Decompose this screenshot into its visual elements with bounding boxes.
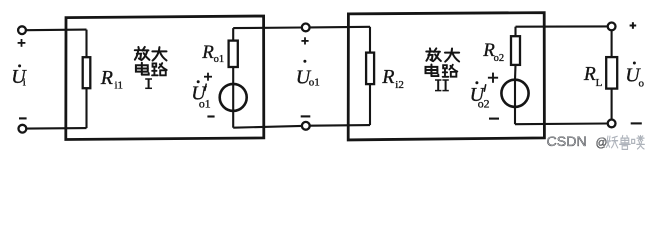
label U'o2 <box>470 81 490 110</box>
terminal output - <box>608 120 616 128</box>
svg-text:o2: o2 <box>478 96 490 110</box>
terminal input - <box>19 125 27 133</box>
label Ro1 <box>201 42 224 65</box>
svg-text:CSDN: CSDN <box>547 134 587 150</box>
svg-text:R: R <box>381 66 394 88</box>
svg-text:@: @ <box>596 137 608 149</box>
svg-text:o1: o1 <box>199 96 211 110</box>
svg-text:i1: i1 <box>115 79 124 91</box>
svg-text:R: R <box>583 64 596 85</box>
label - (mid) <box>301 115 311 117</box>
label II (box2) <box>435 80 449 91</box>
label RL <box>583 64 603 89</box>
label 放大 (box2) <box>426 48 459 61</box>
svg-text:R: R <box>201 42 214 63</box>
label Ri1 <box>100 67 123 91</box>
label Uo <box>625 62 644 90</box>
wire box2 to output top <box>516 25 608 27</box>
voltage source U'o2 <box>501 80 528 125</box>
resistor Ro2 <box>511 27 520 80</box>
label Uo1 <box>296 60 320 89</box>
wire box1 to mid bottom <box>233 126 302 128</box>
label I (box1) <box>145 79 152 88</box>
label 电路 (box1) <box>136 63 167 76</box>
label Ui <box>11 64 27 88</box>
svg-text:i2: i2 <box>395 79 404 91</box>
label - (output) <box>631 122 642 124</box>
terminal output + <box>608 23 616 31</box>
wire input bottom <box>26 127 86 130</box>
label + (output) <box>630 22 637 29</box>
svg-text:R: R <box>100 67 113 89</box>
terminal input + <box>18 26 26 34</box>
label Ri2 <box>381 66 404 91</box>
resistor Ro1 <box>229 28 238 84</box>
amplifier block box 2 (放大电路 II) <box>348 13 544 140</box>
wire mid to Ri2 top <box>310 26 370 29</box>
svg-text:L: L <box>596 77 603 89</box>
resistor RL <box>606 30 617 119</box>
svg-text:o1: o1 <box>309 77 320 89</box>
label 电路 (box2) <box>426 64 458 76</box>
source Uo2' polarity + <box>488 73 498 83</box>
svg-text:o1: o1 <box>214 54 225 65</box>
resistor Ri1 <box>83 30 91 129</box>
svg-text:o: o <box>639 77 645 89</box>
node Uo1 terminal bottom <box>302 122 310 130</box>
wire box1 to mid top <box>233 26 302 29</box>
label Ro2 <box>482 40 504 64</box>
label U'o1 <box>191 80 210 110</box>
resistor Ri2 <box>366 27 374 125</box>
label - (input) <box>19 117 27 119</box>
label + (input) <box>18 39 26 47</box>
wire box2 to output bottom <box>515 122 608 125</box>
label + (mid) <box>301 37 308 44</box>
wire input top <box>26 29 87 32</box>
svg-text:i: i <box>23 77 26 89</box>
amplifier block box 1 (放大电路 I) <box>66 16 264 140</box>
label 放大 (box1) <box>135 47 167 61</box>
source Uo2' polarity - <box>489 118 499 120</box>
wire mid to Ri2 bottom <box>310 124 370 127</box>
node Uo1 terminal top <box>302 24 310 32</box>
source Uo1' polarity + <box>204 73 212 81</box>
svg-text:o2: o2 <box>494 53 505 64</box>
source Uo1' polarity - <box>207 115 214 117</box>
watermark CSDN @妖兽喽 <box>547 134 645 150</box>
voltage source U'o1 <box>220 84 247 128</box>
